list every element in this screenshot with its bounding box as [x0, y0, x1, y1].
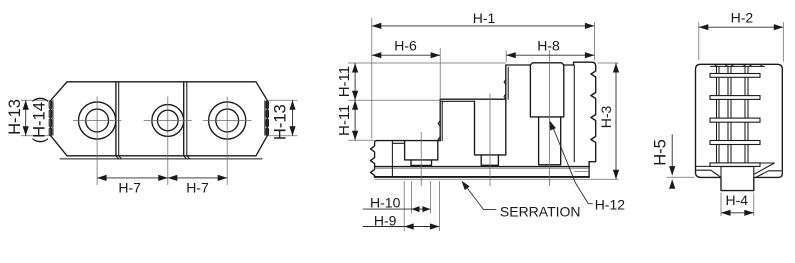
left H-13 extension lines — [21, 100, 50, 136]
svg-text:H-13: H-13 — [6, 99, 24, 135]
throat line between tongue sides — [721, 166, 754, 168]
svg-text:(H-14): (H-14) — [31, 97, 49, 144]
middle step bolt slot — [475, 101, 506, 155]
hole 2 center lines — [144, 97, 192, 186]
right ledge line and chamfer — [757, 171, 782, 177]
dimension H-2 — [699, 26, 784, 28]
svg-text:H-4: H-4 — [726, 192, 749, 208]
svg-text:H-6: H-6 — [394, 38, 417, 54]
svg-text:H-11: H-11 — [336, 66, 353, 97]
middle step top edge — [440, 98, 506, 100]
left bolt head H-10 — [411, 160, 432, 166]
hole 1 — [79, 102, 116, 139]
H-12 leader arrow — [550, 121, 556, 131]
bolt center line (right H-12) — [548, 50, 550, 186]
dimension H-8 — [506, 54, 594, 56]
left serrated edge teeth — [52, 101, 54, 136]
right H-13 extension lines — [269, 100, 298, 136]
spot-face recess line — [392, 142, 404, 144]
svg-text:H-10: H-10 — [370, 194, 401, 210]
dimension H-11 upper — [354, 63, 356, 100]
left counterbore H-9 pocket — [405, 141, 438, 160]
jaw plan-view outline with chamfered corners and serrated ends — [51, 82, 267, 156]
bottom bevel line — [60, 158, 262, 160]
dimension H-10 — [363, 208, 431, 210]
side view block outline with tongue — [696, 64, 783, 190]
right H-13 dimension arrow — [292, 100, 294, 136]
svg-text:SERRATION: SERRATION — [500, 204, 581, 220]
groove edge line — [391, 141, 393, 177]
serration cross bar 4 — [710, 141, 760, 145]
svg-text:H-3: H-3 — [598, 106, 614, 129]
H-10 extension lines — [412, 181, 431, 214]
raised serrated wall top — [574, 62, 596, 66]
base top line (double) — [375, 166, 589, 168]
svg-text:H-7: H-7 — [186, 179, 209, 195]
shoulder line right extension and chamfer — [754, 163, 774, 174]
hole 3 — [209, 102, 246, 139]
svg-text:H-13: H-13 — [272, 104, 290, 140]
bolt center line (middle) — [489, 94, 491, 187]
dimension H-3 — [615, 63, 617, 179]
bolt H-12 body (narrow box) — [539, 117, 561, 165]
serration cross bar 2 — [710, 96, 760, 100]
dimension H-7 (right pair) — [168, 177, 227, 179]
RIGHT VIEW GROUP — [651, 9, 783, 216]
left H-13/(H-14) dimension arrow — [25, 100, 27, 136]
H-5 lower arrow — [671, 181, 673, 187]
svg-text:H-12: H-12 — [595, 196, 626, 212]
right serrated edge teeth — [264, 101, 266, 136]
base bottom edge (serrated mounting face) — [375, 176, 589, 178]
dimension H-7 (left pair) — [97, 177, 168, 179]
dimension H-4 — [721, 212, 754, 214]
serration rail pair 3 — [745, 66, 748, 162]
serration cross bar 3 — [710, 118, 760, 122]
svg-text:H-9: H-9 — [374, 212, 397, 228]
tongue side upper verticals — [721, 167, 754, 178]
H-2 extension lines — [699, 22, 784, 62]
serrated right edge with inward teeth — [589, 66, 596, 177]
middle step bolt body — [481, 155, 498, 165]
H-9 extension lines — [404, 181, 439, 231]
SERRATION leader arrow — [462, 181, 470, 190]
divider bevel ticks — [116, 156, 190, 159]
bolt counterbore H-12 (upper wide box) — [530, 63, 563, 117]
extension line at lower block level — [348, 139, 375, 141]
base bottom second line — [375, 178, 619, 180]
left ledge line and chamfer — [696, 170, 721, 177]
dimension H-1 — [372, 25, 595, 27]
tall block top edge — [506, 64, 574, 66]
H-8 left extension — [505, 51, 507, 63]
H-4 extension lines — [721, 193, 754, 217]
riser serration bumps — [438, 121, 440, 141]
hole 2 — [152, 105, 184, 137]
hole 1 center lines — [73, 97, 121, 186]
serration rail pair 2 — [728, 66, 731, 162]
section divider 1 (double line) — [115, 82, 117, 156]
serration cross bar 1 — [710, 74, 760, 78]
H-1 right extension line — [593, 22, 595, 61]
stepped jaw profile: lower block top edge — [377, 140, 440, 142]
H-1 left extension line — [371, 18, 373, 139]
bolt center line (left) — [420, 132, 422, 186]
H-3 top extension — [598, 62, 619, 64]
dimension H-11 lower — [354, 100, 356, 140]
svg-text:H-7: H-7 — [118, 179, 141, 195]
lower block left serrated edge — [371, 141, 378, 177]
svg-text:H-1: H-1 — [473, 10, 496, 26]
hole 3 center lines — [203, 97, 251, 186]
H-6 right extension (above riser) — [439, 48, 441, 99]
bottom shoulder bar — [710, 163, 760, 167]
extension line at tall block top level — [348, 62, 506, 64]
dimension H-6 — [372, 54, 440, 56]
inner wall line left of serrated part — [573, 65, 575, 162]
H-5 extension line — [667, 176, 695, 178]
extension line at middle step level — [348, 99, 440, 101]
svg-text:H-5: H-5 — [651, 139, 669, 166]
LEFT VIEW GROUP — [6, 82, 298, 196]
MIDDLE VIEW GROUP — [336, 10, 625, 231]
tall block left edge (double with serration bumps) — [505, 65, 507, 155]
section divider 2 (double line) — [183, 82, 185, 156]
riser to middle step (double) — [439, 99, 441, 140]
serration rail pair 1 — [717, 66, 720, 162]
svg-text:H-8: H-8 — [537, 38, 560, 54]
svg-text:H-2: H-2 — [731, 9, 754, 25]
left shoulder line — [696, 165, 711, 167]
svg-text:H-11: H-11 — [336, 105, 353, 136]
H-5 upper arrow — [671, 134, 673, 173]
dimension H-9 — [363, 226, 440, 228]
step detail line near right bottom — [574, 171, 589, 173]
top serration teeth line — [711, 64, 765, 66]
